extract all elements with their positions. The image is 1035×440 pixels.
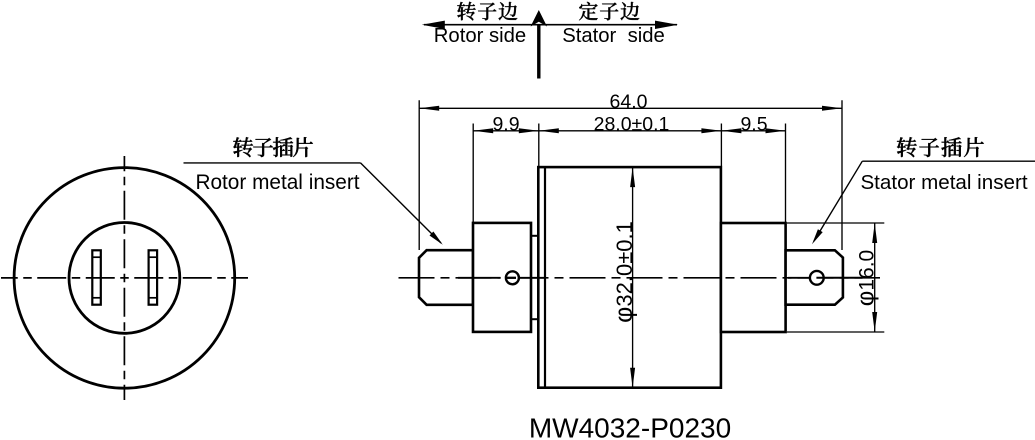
stator flange bbox=[721, 223, 786, 332]
label 转子插片 (stator insert, Chinese) bbox=[897, 137, 984, 157]
svg-text:φ32.0±0.1: φ32.0±0.1 bbox=[610, 221, 638, 323]
body left face line bbox=[544, 167, 546, 388]
side view horizontal centerline bbox=[395, 277, 880, 279]
φ16 extension line top bbox=[787, 222, 884, 224]
rotor insert hole (side view) bbox=[506, 271, 519, 284]
φ16 extension line bottom bbox=[787, 331, 884, 333]
stator insert hole (side view) bbox=[810, 271, 824, 285]
front view horizontal centerline bbox=[1, 277, 248, 279]
rotor/stator side divider horizontal line bbox=[424, 24, 677, 26]
rotor flange bbox=[473, 223, 531, 332]
left metal-insert slot (front view) bbox=[92, 250, 101, 304]
rotor leader underline bbox=[184, 162, 361, 164]
front view inner circle (shaft boss) bbox=[69, 223, 180, 334]
centerline gap left of rotor insert bbox=[501, 276, 506, 279]
centerline solid segment left of stator insert bbox=[788, 277, 810, 279]
svg-text:MW4032-P0230: MW4032-P0230 bbox=[529, 413, 731, 440]
centerline solid segment right of rotor insert bbox=[519, 277, 545, 279]
rotor shaft (left, chamfered end) bbox=[419, 250, 473, 305]
extension line body right (28.0/9.5) bbox=[720, 124, 722, 167]
extension line body left (9.9/28.0) bbox=[538, 124, 540, 167]
stator shaft (right, chamfered end) bbox=[786, 250, 843, 304]
dimension 64.0 extension line right bbox=[841, 100, 843, 250]
extension line stator flange right (9.5) bbox=[785, 124, 787, 223]
front view vertical centerline bbox=[123, 156, 125, 400]
svg-text:Stator metal insert: Stator metal insert bbox=[860, 171, 1027, 194]
svg-text:64.0: 64.0 bbox=[610, 91, 648, 113]
front view outer circle (rotor end face) bbox=[14, 168, 235, 389]
stator leader diagonal bbox=[814, 161, 862, 241]
stator leader underline bbox=[862, 160, 1035, 162]
vertical divider arrow (up) bbox=[537, 24, 540, 79]
svg-text:Stator side: Stator side bbox=[562, 25, 665, 47]
right metal-insert slot (front view) bbox=[149, 250, 158, 304]
label 转子插片 (rotor insert, Chinese) bbox=[233, 137, 313, 157]
right direction arrowhead bbox=[655, 21, 678, 29]
step ring bottom edge bbox=[531, 318, 538, 320]
svg-text:φ16.0: φ16.0 bbox=[853, 250, 880, 306]
label 转子边 (rotor side, Chinese) bbox=[457, 2, 517, 21]
main body bbox=[538, 167, 721, 388]
svg-text:28.0±0.1: 28.0±0.1 bbox=[594, 113, 670, 135]
svg-text:Rotor side: Rotor side bbox=[434, 25, 526, 47]
dimension 64.0 line bbox=[419, 107, 842, 109]
rotor leader diagonal bbox=[361, 163, 442, 243]
dimension 64.0 extension line left bbox=[418, 100, 420, 250]
centerline solid segment left of rotor insert bbox=[458, 277, 501, 279]
dimension line row 9.9 / 28.0 / 9.5 bbox=[473, 130, 785, 132]
extension line flange left (9.9) bbox=[472, 124, 474, 223]
svg-text:9.9: 9.9 bbox=[492, 113, 519, 135]
left direction arrowhead bbox=[422, 21, 445, 29]
step ring top edge bbox=[531, 235, 538, 237]
label 定子边 (stator side, Chinese) bbox=[579, 2, 639, 20]
dimension φ16.0 line bbox=[874, 223, 876, 332]
dimension φ32.0±0.1 line bbox=[632, 167, 634, 388]
svg-text:9.5: 9.5 bbox=[740, 113, 767, 135]
svg-text:Rotor metal insert: Rotor metal insert bbox=[195, 171, 359, 194]
